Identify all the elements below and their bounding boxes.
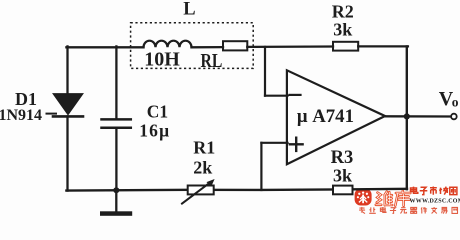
wire op-amp output xyxy=(385,115,452,117)
big brand char wei xyxy=(376,192,392,206)
white inner line of outlined brand chars xyxy=(376,191,411,206)
svg-text:3k: 3k xyxy=(333,165,352,185)
wire left rail lower xyxy=(66,116,68,190)
output terminal circle Vo xyxy=(451,114,457,120)
node junction dot C1-ground xyxy=(113,187,119,193)
resistor R1 potentiometer xyxy=(182,179,215,204)
capacitor C1 xyxy=(102,119,131,127)
watermark xyxy=(355,187,460,214)
svg-text:o: o xyxy=(452,95,459,110)
svg-text:L: L xyxy=(183,0,195,19)
wire non-inverting input branch horizontal xyxy=(261,142,287,144)
wire RL to R2 xyxy=(247,45,333,48)
wire bottom rail xyxy=(66,189,407,191)
wire inductor to RL xyxy=(192,46,224,49)
svg-text:WWW.DZSC.COM: WWW.DZSC.COM xyxy=(410,199,460,205)
label Vo xyxy=(439,88,459,110)
wire inverting input branch vertical xyxy=(264,47,266,96)
logo xyxy=(355,189,372,206)
wire left rail upper xyxy=(66,46,68,95)
wire non-inverting input branch vertical xyxy=(260,143,262,190)
wire inverting input branch horizontal xyxy=(265,95,288,97)
dotted box around L and RL xyxy=(131,23,254,69)
resistor R2 xyxy=(333,42,358,51)
op-amp plus sign xyxy=(290,138,303,151)
wire ground stem xyxy=(115,190,117,211)
wire R2 to feedback corner xyxy=(358,45,408,47)
big brand char ku xyxy=(395,191,410,206)
op-amp U1 triangle xyxy=(287,70,385,164)
svg-text:16μ: 16μ xyxy=(139,120,170,140)
slogan row small chars xyxy=(359,207,457,214)
ground xyxy=(100,211,132,216)
resistor R3 xyxy=(333,186,353,195)
svg-text:D1: D1 xyxy=(15,89,37,109)
wire top rail left xyxy=(66,46,143,48)
svg-text:μ A741: μ A741 xyxy=(297,106,354,127)
wire dash from 1N914 label to diode xyxy=(47,113,57,115)
svg-text:2k: 2k xyxy=(193,158,212,178)
svg-text:1N914: 1N914 xyxy=(0,107,42,124)
diode D1 xyxy=(53,94,83,117)
svg-text:C1: C1 xyxy=(147,102,168,122)
inductor L coil xyxy=(144,41,192,48)
wire C1 branch lower xyxy=(115,128,117,191)
svg-text:3k: 3k xyxy=(333,19,352,39)
site name small chars dian zi shi chang wang xyxy=(411,187,457,195)
svg-text:R1: R1 xyxy=(193,138,215,158)
wire C1 branch upper xyxy=(115,46,117,119)
node junction dot output-feedback xyxy=(404,113,410,119)
resistor RL xyxy=(223,41,247,50)
svg-text:RL: RL xyxy=(201,51,223,72)
op-amp minus sign xyxy=(290,94,301,96)
wire feedback vertical xyxy=(406,46,408,189)
svg-text:10H: 10H xyxy=(144,48,180,70)
